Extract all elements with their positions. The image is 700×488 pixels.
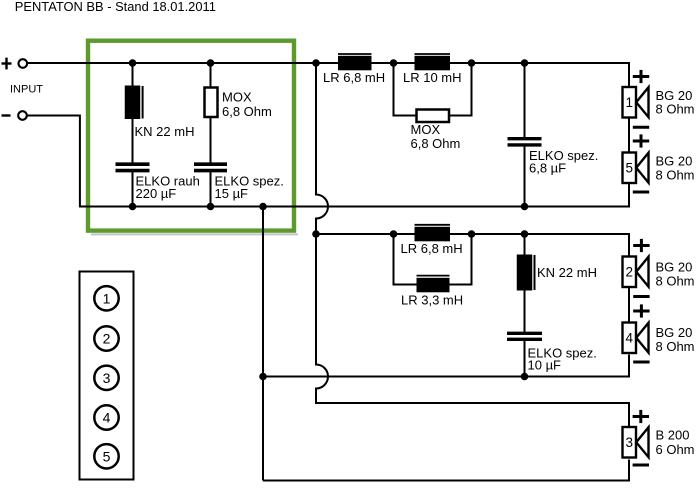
wire: LR 3,3 bypass loop	[394, 234, 417, 285]
speaker 3 B 200	[623, 427, 649, 458]
svg-text:MOX: MOX	[222, 90, 252, 105]
inductor LR 3,3 mH	[417, 276, 450, 293]
inductor LR 6,8 mH (section 2)	[415, 225, 451, 242]
svg-text:B 200: B 200	[656, 428, 690, 443]
svg-text:LR 3,3 mH: LR 3,3 mH	[401, 293, 463, 308]
inductor LR 6,8 mH (section 1)	[338, 54, 372, 70]
svg-text:6,8 Ohm: 6,8 Ohm	[411, 136, 461, 151]
svg-text:MOX: MOX	[411, 122, 441, 137]
svg-text:BG 20: BG 20	[656, 325, 693, 340]
terminal circle 3	[94, 366, 118, 390]
svg-text:KN 22 mH: KN 22 mH	[135, 124, 195, 139]
svg-text:1: 1	[103, 290, 111, 306]
capacitor ELKO spez. 15 µF	[194, 164, 227, 170]
svg-text:2: 2	[103, 331, 111, 347]
capacitor ELKO spez. 10 µF	[507, 333, 542, 339]
polarity - (speaker 5)	[633, 191, 649, 194]
node: bottom rail / KN22	[129, 203, 137, 211]
polarity + (speaker 1)	[633, 70, 649, 83]
node: bottom rail / MOX	[207, 203, 215, 211]
inductor LR 10 mH	[415, 54, 451, 70]
wire: MOX bypass loop around LR 10 mH	[394, 63, 417, 116]
wire: speaker2 to speaker4	[628, 287, 630, 323]
svg-text:6,8 Ohm: 6,8 Ohm	[222, 104, 272, 119]
wire: MOX branch vertical	[210, 63, 212, 164]
wire: section 2 top rail	[316, 234, 629, 256]
node: s2 bottom rail / ELKO10	[521, 373, 529, 381]
polarity + (speaker 3)	[633, 410, 649, 423]
wire: KN22 branch vertical	[132, 63, 134, 164]
svg-text:LR 6,8 mH: LR 6,8 mH	[401, 241, 463, 256]
svg-text:KN 22 mH: KN 22 mH	[537, 265, 597, 280]
polarity + (speaker 4)	[633, 304, 649, 317]
polarity + (speaker 2)	[633, 239, 649, 252]
svg-text:10 µF: 10 µF	[528, 358, 562, 373]
svg-text:BG 20: BG 20	[656, 260, 693, 275]
node: top rail / KN22 branch	[129, 59, 137, 67]
terminal - (minus symbol)	[2, 114, 11, 116]
node: top rail / ELKO 6,8 branch	[521, 59, 529, 67]
green highlight box	[88, 41, 294, 231]
polarity + (speaker 5)	[633, 134, 649, 147]
svg-text:15 µF: 15 µF	[215, 186, 249, 201]
resistor MOX 6,8 Ohm (section 1, vertical)	[205, 88, 218, 118]
svg-text:LR 6,8 mH: LR 6,8 mH	[323, 70, 385, 85]
terminal circle 5	[94, 444, 118, 468]
wire: section 2 bottom rail	[263, 355, 629, 377]
terminal circle 2	[94, 326, 118, 350]
node: s2 rail / LR3,3 left	[390, 230, 398, 238]
wire: woofer bottom loop	[263, 460, 629, 481]
node: bottom rail / ELKO 6,8	[521, 203, 529, 211]
svg-text:3: 3	[626, 435, 634, 450]
polarity - (speaker 4)	[633, 361, 649, 364]
svg-text:6,8 µF: 6,8 µF	[529, 161, 566, 176]
resistor MOX 6,8 Ohm (horizontal)	[417, 110, 450, 123]
node: midrange bus / section2 rail	[312, 230, 320, 238]
wire: ELKO 6,8 branch vertical	[524, 63, 526, 139]
wire: top rail from + terminal to tweeter chain	[28, 63, 629, 86]
svg-text:1: 1	[626, 95, 634, 110]
terminal + (plus symbol)	[2, 58, 12, 70]
svg-text:8 Ohm: 8 Ohm	[656, 274, 695, 289]
svg-text:INPUT: INPUT	[10, 84, 43, 96]
node: s2 rail / LR3,3 right	[468, 230, 476, 238]
svg-text:8 Ohm: 8 Ohm	[656, 102, 695, 117]
speaker 4 BG 20	[623, 323, 649, 354]
svg-text:4: 4	[103, 410, 111, 426]
speaker 5 BG 20	[623, 153, 649, 184]
polarity - (speaker 3)	[633, 464, 649, 467]
svg-text:5: 5	[103, 448, 111, 464]
svg-text:8 Ohm: 8 Ohm	[656, 339, 695, 354]
inductor KN 22 mH (section 1)	[125, 86, 143, 120]
svg-text:PENTATON BB - Stand 18.01.2011: PENTATON BB - Stand 18.01.2011	[15, 0, 216, 14]
terminal circle 1	[94, 286, 118, 310]
svg-text:4: 4	[626, 331, 634, 346]
polarity - (speaker 1)	[633, 126, 649, 129]
wire: return bus x=263	[262, 207, 264, 481]
speaker 1 BG 20	[623, 87, 649, 118]
node: top rail / LR10 bypass right	[468, 59, 476, 67]
inductor KN 22 mH (section 2)	[517, 255, 535, 291]
node: top rail / MOX branch	[207, 59, 215, 67]
wire: KN22/ELKO10 branch vertical	[524, 234, 526, 333]
node: return bus / s2 bottom rail	[259, 373, 267, 381]
wire: minus input down and bottom rail 1	[28, 116, 630, 207]
svg-text:LR 10 mH: LR 10 mH	[403, 70, 462, 85]
node: s2 rail / KN22 branch	[521, 230, 529, 238]
svg-text:3: 3	[103, 370, 111, 386]
polarity - (speaker 2)	[633, 295, 649, 298]
node: top rail / midrange feed	[312, 59, 320, 67]
terminal strip outline	[80, 272, 134, 480]
node: bottom rail / return bus	[259, 203, 267, 211]
node: top rail / LR10 bypass left	[390, 59, 398, 67]
capacitor ELKO spez. 6,8 µF	[508, 139, 542, 145]
svg-text:220 µF: 220 µF	[136, 186, 177, 201]
terminal + circle	[19, 59, 28, 68]
svg-text:2: 2	[626, 265, 634, 280]
terminal circle 4	[94, 405, 118, 429]
svg-text:5: 5	[626, 161, 634, 176]
terminal - circle	[18, 111, 27, 120]
svg-text:8 Ohm: 8 Ohm	[656, 168, 695, 183]
capacitor ELKO rauh 220 µF	[116, 164, 150, 170]
svg-text:BG 20: BG 20	[656, 154, 693, 169]
svg-text:6 Ohm: 6 Ohm	[656, 442, 695, 457]
speaker 2 BG 20	[623, 257, 649, 288]
wire: midrange feed with hops (vertical bus x=316)	[316, 63, 629, 427]
wire: speaker1 to speaker5	[628, 118, 630, 153]
